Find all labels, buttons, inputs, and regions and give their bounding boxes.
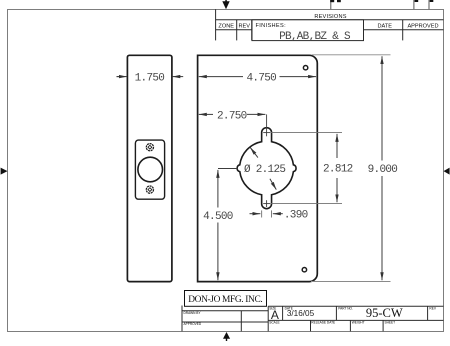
edge plate (side view) [127,55,171,281]
svg-text:SHEET: SHEET [385,321,396,325]
svg-text:APPROVED: APPROVED [407,24,438,30]
svg-text:FINISHES:: FINISHES: [256,23,287,29]
dim 2.812 extension lines [270,133,342,204]
svg-text:DON-JO MFG. INC.: DON-JO MFG. INC. [188,295,262,305]
svg-text:PB,AB,BZ & S: PB,AB,BZ & S [279,31,351,43]
centering mark right [444,168,450,175]
dim 4.500 [218,168,238,170]
svg-text:PART NO.: PART NO. [338,306,353,310]
centering mark top [222,0,229,9]
svg-text:WEIGHT: WEIGHT [352,321,365,325]
finishes note box [252,20,364,41]
dim 2.812 [336,134,338,202]
svg-text:3/16/05: 3/16/05 [287,309,315,318]
center mark top tab [263,114,270,136]
svg-text:REVISIONS: REVISIONS [314,14,346,20]
screw hole bottom [146,186,153,193]
svg-text:4.500: 4.500 [203,211,233,223]
svg-text:4.750: 4.750 [247,73,277,85]
revisions table [216,9,444,40]
svg-text:DATE: DATE [377,24,392,30]
svg-text:REV: REV [429,306,436,310]
dim 2.750 [199,113,266,115]
svg-text:RELEASE DATE: RELEASE DATE [311,321,335,325]
svg-text:A: A [271,308,279,322]
svg-text:DRAWN BY: DRAWN BY [184,311,202,315]
mount hole top [303,66,307,70]
dim 4.750 [199,76,316,78]
latch plate cutout [135,140,164,199]
screw hole top [146,144,153,151]
dim 9.000 extension lines [311,55,391,282]
main plate (face view) [198,55,318,281]
dim 9.000 [381,56,383,280]
svg-text:.390: .390 [284,209,308,221]
title block tiny labels [184,311,202,315]
svg-text:Ø 2.125: Ø 2.125 [244,164,285,176]
lock cutout with tabs [237,128,296,209]
dim 1.750 [117,76,184,78]
svg-text:1.750: 1.750 [135,73,165,85]
dim .390 extension lines [262,210,272,217]
svg-text:9.000: 9.000 [368,164,398,176]
mount hole bottom [302,268,306,272]
svg-text:2.750: 2.750 [217,110,247,122]
clipped zone marks on top edge [331,0,429,9]
latch bore circle [138,157,163,182]
centering mark bottom [223,332,230,341]
svg-text:ZONE: ZONE [218,24,234,30]
centering mark left [1,168,8,175]
svg-text:REV: REV [238,24,250,30]
title block grid [182,306,444,332]
svg-text:2.812: 2.812 [323,164,353,176]
title block: company box [185,291,267,307]
diameter leader arrows [250,147,276,189]
center mark bottom tab [263,200,270,207]
svg-text:95-CW: 95-CW [366,306,403,320]
svg-text:APPROVED: APPROVED [184,322,202,326]
dim .390 [250,213,283,215]
